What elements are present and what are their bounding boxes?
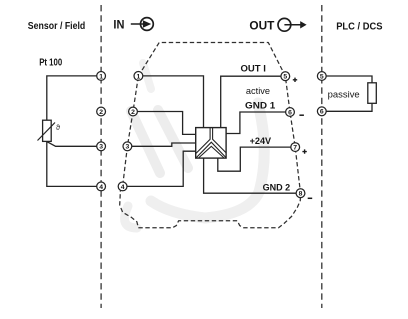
field terminal 3 [97, 142, 106, 151]
svg-text:OUT: OUT [249, 18, 275, 32]
svg-text:+24V: +24V [250, 136, 272, 147]
watermark (faint logo arcs) [125, 63, 265, 228]
device terminal 2 [129, 107, 138, 116]
svg-text:1: 1 [137, 73, 141, 80]
device dashed outline [120, 43, 301, 228]
minus sign at terminal 6 [299, 114, 304, 116]
wire: device terminal 3 to isolator left middle [132, 143, 196, 146]
svg-text:OUT I: OUT I [241, 63, 266, 74]
wire: field terminal 1 to RTD top [47, 76, 97, 120]
svg-text:5: 5 [320, 73, 324, 80]
resistor load (passive) [368, 83, 377, 104]
svg-text:3: 3 [99, 144, 103, 151]
resistor RTD Pt100 body [43, 120, 52, 141]
isolating amplifier U1 body [196, 128, 226, 159]
wire: RTD bottom down to field terminal 4 [47, 141, 97, 186]
wire: device terminal 4 to isolator left lower [127, 151, 196, 186]
svg-text:2: 2 [131, 109, 135, 116]
svg-text:1: 1 [99, 73, 103, 80]
wire: device terminal 2 to isolator left upper [137, 112, 195, 135]
device terminal 6 [286, 108, 295, 117]
wire: RTD bottom branch to field terminal 3 [47, 142, 97, 147]
svg-text:4: 4 [99, 184, 103, 191]
plus sign at terminal 5 [293, 78, 297, 82]
isolator symbol strokes [196, 128, 226, 158]
svg-text:2: 2 [99, 109, 103, 116]
wire: device terminal 1 to isolator top-left [143, 76, 204, 128]
device terminal 4 [118, 182, 127, 191]
svg-text:5: 5 [283, 74, 287, 81]
IN icon (arrow into circle) [131, 18, 154, 31]
device terminal 3 [123, 142, 132, 151]
separator dashed line (left, Sensor/IN) [100, 5, 102, 308]
plus sign at terminal 7 [302, 149, 306, 153]
svg-text:4: 4 [121, 184, 125, 191]
svg-text:IN: IN [113, 17, 124, 31]
wire: OUT I from isolator top-right to device terminal 5 [221, 76, 281, 127]
svg-text:6: 6 [288, 109, 292, 116]
svg-text:passive: passive [328, 90, 360, 101]
PLC terminal 6 [317, 107, 326, 116]
svg-text:3: 3 [126, 144, 130, 151]
svg-text:Sensor / Field: Sensor / Field [28, 20, 86, 32]
wire: GND 2 from isolator bottom to device terminal 8 [204, 158, 297, 193]
device terminal 5 [281, 72, 290, 81]
separator dashed line (right, OUT/PLC) [321, 5, 323, 308]
device terminal 7 [291, 143, 300, 152]
RTD diagonal stroke [38, 123, 56, 141]
svg-text:6: 6 [320, 109, 324, 116]
svg-text:Pt 100: Pt 100 [39, 58, 62, 69]
device terminal 1 [134, 72, 143, 81]
field terminal 1 [97, 72, 106, 81]
field terminal 2 [97, 107, 106, 116]
wire: load resistor to PLC terminal 6 [326, 103, 372, 111]
wire: +24V from isolator bottom to device terminal 7 [218, 147, 291, 171]
device terminal 8 [296, 189, 305, 198]
minus sign at terminal 8 [308, 197, 313, 199]
OUT icon (arrow out of circle) [278, 18, 307, 31]
PLC terminal 5 [317, 72, 326, 81]
svg-text:PLC / DCS: PLC / DCS [336, 21, 383, 32]
svg-text:7: 7 [293, 145, 297, 152]
wire: PLC terminal 5 to load resistor [326, 76, 372, 83]
svg-text:active: active [246, 86, 270, 97]
svg-text:GND 2: GND 2 [263, 182, 291, 193]
field terminal 4 [97, 182, 106, 191]
svg-text:GND 1: GND 1 [245, 101, 276, 112]
wire: GND 1 from isolator right to device terminal 6 [226, 112, 286, 134]
svg-text:8: 8 [299, 191, 303, 198]
